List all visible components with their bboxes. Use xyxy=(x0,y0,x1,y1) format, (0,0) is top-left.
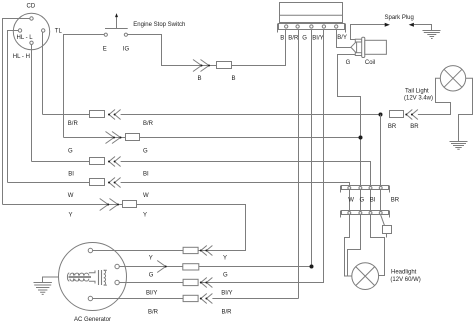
wire generator B/R row xyxy=(93,298,184,300)
svg-text:E: E xyxy=(103,47,107,53)
wire G to headlight xyxy=(348,215,361,277)
svg-text:AC Generator: AC Generator xyxy=(74,317,111,323)
wire BR to dimmer box xyxy=(381,215,385,226)
connector plug B/R row xyxy=(90,111,105,118)
light switch body xyxy=(13,4,63,60)
wire G row xyxy=(64,137,126,139)
svg-text:B: B xyxy=(232,76,236,82)
connector plug BI row xyxy=(90,158,105,165)
generator terminal BI/Y xyxy=(115,280,119,284)
ignition coil xyxy=(346,37,387,66)
connector arrow Y row xyxy=(100,199,119,211)
wire spark plug to ground xyxy=(414,25,432,31)
wire IG to B row xyxy=(128,35,218,66)
svg-text:G: G xyxy=(360,198,365,204)
svg-text:(12V 60/W): (12V 60/W) xyxy=(390,277,420,283)
headlight connector block upper strip xyxy=(341,186,390,193)
wire dimmer box stub xyxy=(386,234,388,238)
svg-text:Coil: Coil xyxy=(365,60,375,66)
svg-text:BI/Y: BI/Y xyxy=(221,290,232,296)
svg-text:BI/Y: BI/Y xyxy=(146,290,157,296)
wire BI row to headlight block xyxy=(121,162,371,186)
svg-text:TL: TL xyxy=(55,29,63,35)
svg-text:IG: IG xyxy=(123,47,130,53)
svg-text:B/R: B/R xyxy=(148,309,159,315)
generator terminal Y xyxy=(88,248,92,252)
svg-text:(12V 3.4w): (12V 3.4w) xyxy=(404,95,433,101)
dimmer box xyxy=(383,226,392,234)
svg-text:BI/Y: BI/Y xyxy=(312,35,323,41)
svg-text:W: W xyxy=(348,198,354,204)
svg-text:B/R: B/R xyxy=(222,309,233,315)
wire TL to B/R row xyxy=(42,32,44,114)
generator terminal G xyxy=(115,264,119,268)
wire junction to headlight block BR xyxy=(380,115,382,186)
connector plug tail BR xyxy=(390,111,404,118)
wire coil G xyxy=(338,55,361,188)
connector plug W row xyxy=(90,179,105,186)
wire coil HT to spark plug xyxy=(351,25,385,40)
connector arrow generator B/R xyxy=(200,294,213,304)
svg-text:Y: Y xyxy=(149,256,153,262)
connector arrow generator Y xyxy=(200,246,213,256)
svg-text:Y: Y xyxy=(69,212,73,218)
wire generator Y row xyxy=(93,250,184,252)
wire tail light to ground xyxy=(459,78,473,141)
connector plug generator B/R xyxy=(183,295,198,301)
svg-text:BR: BR xyxy=(391,198,400,204)
wire CDI B/Y to coil primary xyxy=(337,30,351,48)
wire HL-H to BI row xyxy=(31,45,33,162)
svg-text:G: G xyxy=(302,35,307,41)
wire tail BR to tail light xyxy=(418,78,451,114)
svg-text:Headlight: Headlight xyxy=(391,270,417,276)
wire W to headlight xyxy=(345,215,352,277)
svg-text:B/R: B/R xyxy=(68,121,79,127)
generator winding xyxy=(67,270,106,285)
connector plug generator Y xyxy=(183,247,198,253)
wire CDI BI/Y down to generator BI/Y row xyxy=(201,30,324,283)
light switch terminal HL-H xyxy=(30,41,33,44)
wire generator to ground xyxy=(43,277,59,283)
ground spark plug xyxy=(423,31,441,39)
svg-text:HL - H: HL - H xyxy=(13,54,30,60)
svg-text:B/Y: B/Y xyxy=(337,35,347,41)
connector arrow B row xyxy=(193,60,210,72)
wire CDI G down to generator G row xyxy=(311,30,313,267)
spark plug arrow left xyxy=(385,23,390,27)
svg-text:G: G xyxy=(223,273,228,279)
ground generator xyxy=(34,283,52,295)
generator terminal B/R xyxy=(88,296,92,300)
svg-text:BI: BI xyxy=(143,172,149,178)
svg-text:BI: BI xyxy=(370,198,376,204)
tail light xyxy=(404,66,466,102)
CDI terminal strip xyxy=(278,24,346,33)
connector plug B row xyxy=(217,62,232,69)
ground tail light xyxy=(450,142,468,150)
wire CD to Y row xyxy=(3,19,30,205)
headlight xyxy=(352,263,421,290)
wire W row to headlight block xyxy=(121,183,350,186)
wire Y row to generator Y row xyxy=(137,205,246,251)
svg-text:Spark Plug: Spark Plug xyxy=(385,15,414,21)
connector arrow B/R row xyxy=(108,110,121,120)
svg-text:G: G xyxy=(143,149,148,155)
wire CDI B/R down to generator B/R row xyxy=(298,30,300,299)
svg-text:G: G xyxy=(149,273,154,279)
light switch terminal HL-L xyxy=(18,29,21,32)
spark plug arrow right xyxy=(409,23,414,27)
wire B/R row xyxy=(43,114,90,116)
junction generator G xyxy=(310,265,314,269)
wire W row xyxy=(8,182,90,184)
headlight connector block lower strip xyxy=(341,211,390,218)
connector plug Y row xyxy=(123,201,137,208)
connector plug generator G xyxy=(183,264,199,270)
svg-text:CD: CD xyxy=(27,4,36,10)
light switch terminal CD xyxy=(30,17,33,20)
wire B row to CDI xyxy=(232,30,286,66)
svg-text:Tail Light: Tail Light xyxy=(405,89,429,95)
svg-text:Engine Stop Switch: Engine Stop Switch xyxy=(133,22,185,28)
svg-text:BR: BR xyxy=(410,124,419,130)
svg-text:G: G xyxy=(346,60,351,66)
junction B/R xyxy=(379,113,383,117)
wire BI row xyxy=(32,161,90,163)
svg-text:W: W xyxy=(143,193,149,199)
connector plug G row xyxy=(126,134,140,141)
svg-text:B/R: B/R xyxy=(288,35,299,41)
svg-text:B/R: B/R xyxy=(143,121,154,127)
svg-text:B: B xyxy=(280,35,284,41)
svg-text:BR: BR xyxy=(388,124,397,130)
wire generator G row xyxy=(119,266,183,268)
AC generator xyxy=(59,243,127,324)
svg-text:HL - L: HL - L xyxy=(17,35,34,41)
wire generator G row to junction xyxy=(199,266,312,268)
light switch terminal TL xyxy=(42,29,45,32)
connector arrow BI row xyxy=(108,157,121,167)
svg-text:Y: Y xyxy=(223,256,227,262)
wire B/R row to junction xyxy=(121,114,381,116)
svg-text:W: W xyxy=(68,193,74,199)
junction G xyxy=(359,136,363,140)
wire Y row xyxy=(3,204,123,206)
connector arrow tail BR xyxy=(405,110,418,120)
connector arrow W row xyxy=(108,178,121,188)
svg-text:G: G xyxy=(68,149,73,155)
connector arrow generator BI/Y xyxy=(200,278,213,288)
wires between strips xyxy=(350,190,381,211)
connector arrow generator G xyxy=(157,261,167,273)
wire E to G row xyxy=(64,35,105,138)
svg-text:Y: Y xyxy=(143,212,147,218)
connector arrow G row xyxy=(106,132,122,144)
wire generator BI/Y row xyxy=(119,282,183,284)
wire BI to headlight right xyxy=(371,215,385,276)
svg-text:BI: BI xyxy=(68,172,74,178)
engine stop switch xyxy=(103,13,186,52)
CDI unit box xyxy=(280,3,343,23)
connector plug generator BI/Y xyxy=(183,279,198,285)
wire G row to junction xyxy=(140,137,361,139)
wire HL-L to W row xyxy=(8,31,19,183)
svg-text:B: B xyxy=(198,76,202,82)
